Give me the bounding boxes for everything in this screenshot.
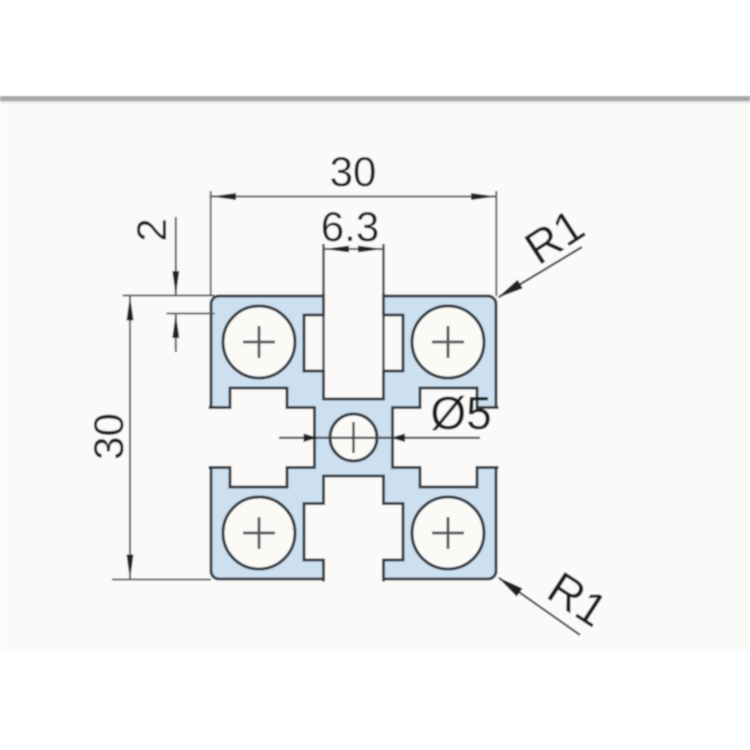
top 30 dimension extension line left (210, 191, 212, 296)
top slot cavity (channel + wings) (304, 294, 403, 400)
left 30 bottom extension line (112, 579, 211, 581)
left T-slot cavity (209, 388, 315, 487)
corner screw boss circle bottom-right (412, 497, 484, 569)
corner screw boss circle top-right (412, 306, 484, 378)
corner screw boss circle bottom-left (223, 497, 295, 569)
left 30 arrow down (127, 555, 134, 580)
2 dimension lower extension line (167, 313, 215, 315)
svg-text:2: 2 (128, 218, 175, 241)
center hole horizontal leader line (279, 437, 480, 439)
corner screw boss circle top-left (223, 306, 295, 378)
6.3 dimension line (324, 248, 384, 250)
right T-slot cavity (393, 388, 499, 487)
bottom T-slot cavity (304, 476, 403, 582)
leader arrow left (points right at slot wall) (304, 434, 318, 443)
svg-text:Ø5: Ø5 (430, 387, 491, 439)
svg-text:30: 30 (330, 148, 377, 195)
R1 top-right arrow (497, 280, 523, 298)
2 arrow down (172, 271, 179, 296)
cross top-left (243, 326, 275, 358)
left 30 arrow up (127, 296, 134, 321)
6.3 arrow left (324, 246, 349, 253)
center hole circle (330, 414, 377, 461)
R1 bottom-right arrow (498, 577, 523, 597)
svg-text:30: 30 (85, 413, 132, 460)
top 30 dimension extension line right (495, 191, 497, 296)
2 arrow up (172, 314, 179, 339)
cross top-right (432, 326, 464, 358)
R1 bottom-right leader (499, 578, 580, 635)
top 30 dimension line (211, 196, 497, 198)
drawing area background (0, 101, 750, 650)
center hole vertical centerline (352, 422, 354, 453)
leader arrow right (points left at slot wall) (391, 434, 405, 443)
2 dimension top extension line (shared with left 30) (123, 295, 215, 297)
top slot channel walls / 6.3 extension lines (322, 244, 324, 399)
profile body (30x30 extrusion outline) (211, 296, 496, 579)
6.3 arrow right (358, 246, 383, 253)
svg-text:6.3: 6.3 (321, 203, 379, 250)
cross bottom-right (432, 517, 464, 549)
left 30 dimension line (129, 296, 131, 580)
cross bottom-left (243, 517, 275, 549)
top separator bar (0, 96, 750, 101)
top 30 arrow right (471, 193, 496, 200)
top 30 arrow left (211, 193, 236, 200)
R1 top-right leader (499, 247, 582, 297)
2 dimension upper leader (175, 217, 177, 296)
2 dimension lower leader (175, 314, 177, 353)
